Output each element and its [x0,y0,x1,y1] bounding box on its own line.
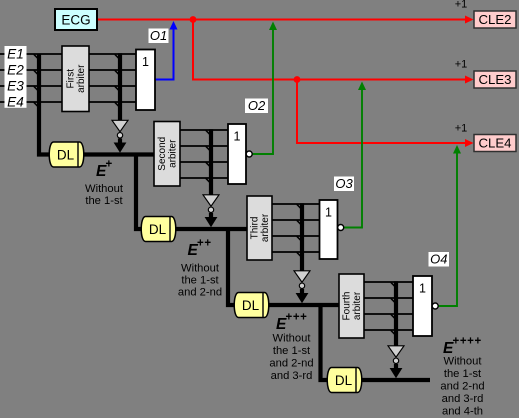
wire E+++ bus [267,303,339,307]
inverted output bubble stage 4 [432,303,438,309]
wire red ECG to CLE2 [97,19,471,21]
svg-text:the 1-st: the 1-st [444,368,482,380]
label +1 at CLE [455,123,468,135]
svg-text:ECG: ECG [61,13,90,28]
svg-text:Without: Without [181,263,220,275]
wire E1 input row [0,53,136,55]
svg-text:E4: E4 [7,95,24,110]
text without block 1 [85,183,124,207]
svg-text:Without: Without [444,356,483,368]
wire E+ bus [82,152,154,156]
inverter stage 3 [294,271,310,289]
wire E2 input row [0,69,136,71]
inverted output bubble stage 2 [246,151,252,157]
svg-text:1: 1 [325,206,332,220]
wires arbiter2 outputs [180,130,228,178]
arrow blue O1 [170,21,178,30]
svg-text:and 2-nd: and 2-nd [178,287,222,299]
block arbiter 1 (First arbiter) [62,46,89,112]
arrow inverter 2 to bus [205,213,218,227]
wire green O4 [438,153,458,306]
block register 1 stage 3 [320,200,338,259]
block arbiter 3 (Third arbiter) [247,196,272,260]
wire E3 input row [0,85,136,87]
wire collector bus stage 1 [118,53,122,121]
node label O3 [334,176,354,191]
node label O2 [245,98,268,113]
arrow inverter 1 to bus [114,139,127,153]
text without block 2 [178,263,222,299]
block register 1 stage 4 [413,276,432,336]
junction node red 2 [294,76,301,83]
svg-text:1: 1 [419,282,426,296]
svg-text:the 1-st: the 1-st [273,345,311,357]
svg-text:+1: +1 [455,0,468,11]
svg-text:Without: Without [273,333,312,345]
arrow green O4 [453,145,461,154]
svg-text:O4: O4 [430,252,447,267]
inverted output bubble stage 3 [338,225,344,231]
arrow red CLE2 [465,16,474,24]
block arbiter 2 (Second arbiter) [154,122,180,187]
svg-text:DL: DL [57,148,75,163]
svg-text:the 1-st: the 1-st [181,275,219,287]
svg-text:and 4-th: and 4-th [442,406,483,418]
wire input collector bus [39,54,50,155]
junction ticks collector 1 [115,54,119,107]
svg-text:CLE4: CLE4 [479,136,512,151]
svg-text:DL: DL [335,373,353,388]
wire collector bus stage 3 [300,203,304,271]
inverter stage 4 [388,346,404,364]
wire bus corner 3 [321,304,330,380]
svg-text:CLE2: CLE2 [479,12,512,27]
svg-text:++: ++ [197,238,212,250]
arrow inverter 4 to bus [390,364,403,378]
junction ticks collector 4 [391,282,395,335]
svg-text:++++: ++++ [453,336,482,348]
delay line DL2 [141,217,176,242]
net label E+++ [276,312,307,334]
svg-text:CLE3: CLE3 [479,72,512,87]
inverter stage 1 [112,120,128,138]
junction node red 1 [190,16,197,23]
wire red to CLE3 [193,20,471,80]
wires arbiter3 outputs [272,204,320,252]
arrow red CLE3 [465,76,474,84]
svg-text:+++: +++ [286,312,308,324]
node label O4 [429,252,450,267]
svg-text:E1: E1 [7,47,24,62]
wire bus corner 1 [136,154,143,230]
wire bus corner 2 [228,228,236,305]
net label E++ [188,238,212,260]
wire green O2 [252,30,273,155]
node label O1 [149,28,169,43]
svg-text:+1: +1 [455,123,468,135]
svg-text:Secondarbiter: Secondarbiter [157,137,178,171]
svg-text:E2: E2 [7,63,24,78]
svg-text:O2: O2 [248,98,266,113]
svg-text:Fourtharbiter: Fourtharbiter [342,291,363,320]
arrow green O3 [358,82,366,91]
delay line DL3 [234,293,269,318]
wire E++++ bus [360,378,430,382]
inverter stage 2 [203,195,219,213]
wire blue O1 [156,29,174,80]
arrow green O2 [269,22,277,31]
block CLE2 [474,11,516,28]
wire green O3 [344,90,362,228]
wires arbiter4 outputs [364,282,413,330]
svg-text:E3: E3 [7,79,24,94]
svg-text:O1: O1 [150,28,167,43]
net label E++++ [443,336,482,358]
junction ticks collector 2 [206,130,210,183]
block register 1 stage 2 [228,124,246,184]
label +1 at CLE [455,59,468,71]
node labels E1-E4 [5,46,27,110]
svg-text:1: 1 [142,55,149,69]
block register 1 stage 1 [136,50,155,111]
junction ticks collector 3 [297,204,301,256]
svg-text:and 2-nd: and 2-nd [269,358,313,370]
delay line DL1 [49,142,84,167]
svg-text:the 1-st: the 1-st [85,195,123,207]
wire collector bus stage 2 [209,129,213,195]
arrow inverter 3 to bus [296,289,309,303]
block CLE3 [474,71,516,88]
net label E+ [96,159,113,181]
wire E++ bus [174,227,247,231]
svg-text:O3: O3 [335,176,353,191]
text without block 3 [269,333,313,383]
svg-text:and 3-rd: and 3-rd [442,393,484,405]
label +1 at CLE [455,0,468,11]
junction ticks input collector [34,54,38,107]
svg-text:Thirdarbiter: Thirdarbiter [250,213,271,242]
svg-text:DL: DL [242,298,260,313]
svg-text:and 2-nd: and 2-nd [440,381,484,393]
delay line DL4 [327,368,362,393]
svg-text:and 3-rd: and 3-rd [271,370,313,382]
block CLE4 [474,135,516,152]
svg-text:+1: +1 [455,59,468,71]
block arbiter 4 (Fourth arbiter) [339,274,364,338]
svg-text:Without: Without [85,183,124,195]
svg-text:DL: DL [149,222,167,237]
wire collector bus stage 4 [394,281,398,346]
wire red to CLE4 [297,80,471,144]
block ECG [55,9,97,30]
text without block 4 [440,356,484,418]
svg-text:1: 1 [234,130,241,144]
svg-text:+: + [106,159,113,171]
arrow red CLE4 [465,139,474,147]
wire E4 input row [0,101,136,103]
